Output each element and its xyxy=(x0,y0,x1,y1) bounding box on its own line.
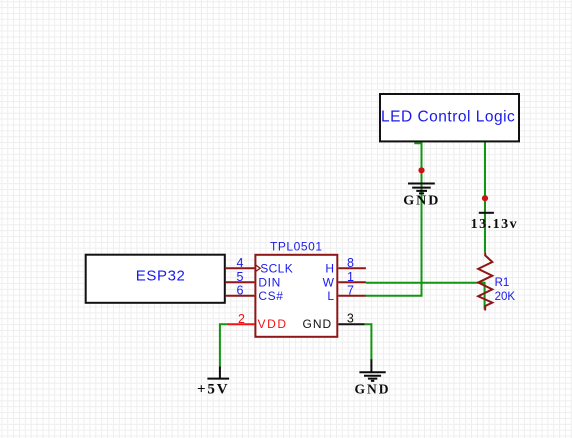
junction dot on GND net xyxy=(418,167,424,173)
svg-text:ESP32: ESP32 xyxy=(136,268,186,285)
wire net +5V: pin 2 to +5V port xyxy=(220,324,227,366)
pin 1 stub (W) xyxy=(338,270,366,284)
svg-text:DIN: DIN xyxy=(258,275,280,289)
svg-text:LED Control Logic: LED Control Logic xyxy=(381,109,515,126)
wire net GND: pin 3 to GND port xyxy=(365,324,372,359)
svg-text:6: 6 xyxy=(237,283,244,297)
block ESP32 xyxy=(86,255,225,303)
svg-text:1: 1 xyxy=(347,270,354,284)
pin 2 stub (VDD) xyxy=(227,312,255,326)
junction dot on 13.13v net xyxy=(482,195,488,201)
wire net GND: LED box left pin down through GND port to L pin xyxy=(366,142,422,296)
svg-text:8: 8 xyxy=(347,256,354,270)
svg-text:4: 4 xyxy=(237,256,244,270)
pin 5 stub (DIN) xyxy=(226,270,255,284)
power port +5V xyxy=(197,367,229,398)
power port 13.13v xyxy=(471,213,518,232)
component U1 TPL0501 xyxy=(255,239,337,336)
pin 4 stub (SCLK) xyxy=(226,256,255,270)
svg-text:VDD: VDD xyxy=(258,317,288,331)
power port GND upper xyxy=(403,184,440,209)
svg-text:GND: GND xyxy=(355,381,391,396)
wire net 13.13v: LED box right pin down to R1 top xyxy=(484,142,486,253)
svg-text:R1: R1 xyxy=(495,277,510,289)
pin 3 stub (GND) xyxy=(338,312,365,326)
svg-text:W: W xyxy=(323,275,335,289)
pin 7 stub (L) xyxy=(338,283,366,297)
wire net W: TPL0501 pin 1 to R1 bottom xyxy=(366,283,485,310)
power port GND lower xyxy=(355,359,391,396)
resistor R1 20K xyxy=(478,253,515,311)
svg-text:GND: GND xyxy=(303,317,333,331)
clock glyph on SCLK pin xyxy=(255,264,260,272)
svg-text:TPL0501: TPL0501 xyxy=(270,239,323,253)
svg-text:2: 2 xyxy=(238,312,245,326)
svg-text:SCLK: SCLK xyxy=(260,261,293,275)
svg-text:CS#: CS# xyxy=(258,289,283,303)
pin 8 stub (H) xyxy=(338,256,366,270)
svg-text:3: 3 xyxy=(347,312,354,326)
svg-text:GND: GND xyxy=(403,194,440,209)
svg-text:H: H xyxy=(325,261,334,275)
svg-text:20K: 20K xyxy=(495,291,516,303)
svg-text:L: L xyxy=(327,289,334,303)
pin 6 stub (CS#) xyxy=(226,283,255,297)
svg-text:5: 5 xyxy=(237,270,244,284)
svg-text:7: 7 xyxy=(347,283,354,297)
svg-text:13.13v: 13.13v xyxy=(471,217,518,232)
block LED Control Logic xyxy=(380,94,519,141)
svg-text:+5V: +5V xyxy=(197,381,229,397)
